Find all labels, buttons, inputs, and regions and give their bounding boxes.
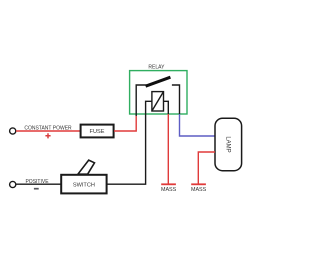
wire black terminal to switch xyxy=(16,183,61,185)
lamp L1 xyxy=(215,118,242,170)
svg-text:FUSE: FUSE xyxy=(90,129,105,135)
ground MASS bar (lamp) xyxy=(191,183,206,185)
wire black relay coil to switch xyxy=(107,116,146,184)
relay right contact pin 87 xyxy=(172,85,180,114)
node CONSTANT POWER terminal xyxy=(10,128,16,134)
svg-text:RELAY: RELAY xyxy=(148,65,165,71)
wire red relay coil to mass xyxy=(167,114,169,184)
wire red terminal to fuse xyxy=(16,130,80,132)
relay coil xyxy=(152,92,164,111)
svg-text:SWITCH: SWITCH xyxy=(73,182,95,188)
relay switch arm xyxy=(146,77,171,86)
relay coil diagonal xyxy=(152,92,164,111)
relay K1 enclosure xyxy=(130,71,187,114)
switch lever xyxy=(78,160,95,174)
svg-text:MASS: MASS xyxy=(191,187,207,193)
ground MASS bar (relay) xyxy=(161,183,176,185)
label - polarity xyxy=(34,188,39,190)
label + polarity xyxy=(45,133,50,138)
svg-text:MASS: MASS xyxy=(161,187,177,193)
relay coil left leg pin 86 xyxy=(146,101,152,116)
wire blue relay to lamp xyxy=(180,114,216,136)
wire red lamp to mass xyxy=(198,152,215,184)
relay left contact pin 30 xyxy=(136,85,146,116)
node POSITIVE terminal xyxy=(10,181,16,187)
svg-text:LAMP: LAMP xyxy=(224,136,230,152)
fuse F1 box xyxy=(81,125,114,138)
switch S1 box xyxy=(61,175,106,194)
relay coil right leg pin 85 xyxy=(164,101,169,114)
wire red fuse to relay pin 30 xyxy=(114,116,136,131)
